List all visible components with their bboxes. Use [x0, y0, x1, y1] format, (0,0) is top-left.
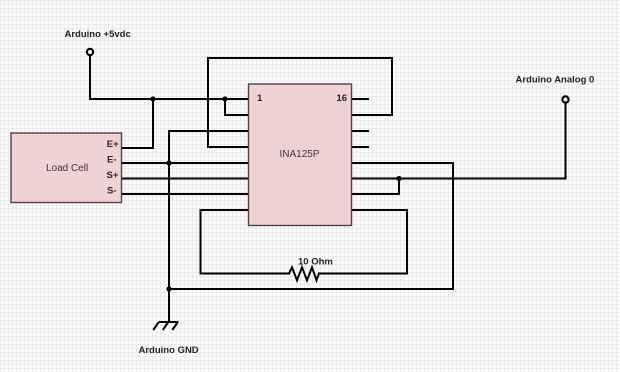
svg-text:10 Ohm: 10 Ohm [298, 257, 333, 268]
wire gain loop left: U1 pin 8 around to resistor [201, 210, 290, 274]
load cell block [11, 133, 122, 203]
wire gain loop right: resistor up to U1 pin 9 [319, 210, 407, 274]
wire load cell S+ to U1 pin 6 [122, 178, 249, 180]
wire U1 pin 12 to ground rail [169, 163, 453, 289]
wire top loop: pin 4 riser, top run, down to pin 15 [208, 58, 392, 147]
wire from +5v rail down to U1 pin 2 [225, 99, 249, 115]
svg-text:1: 1 [257, 93, 263, 104]
wire U1 pin 3 to ground vertical [169, 130, 249, 132]
ground symbol [153, 322, 178, 330]
junction dot pin 10 tap on analog wire [396, 176, 401, 181]
svg-text:INA125P: INA125P [280, 149, 320, 160]
wire load cell S- to U1 pin 7 [122, 193, 249, 195]
wire U1 pin 11 to Arduino Analog 0 [352, 104, 566, 179]
svg-text:Arduino +5vdc: Arduino +5vdc [65, 29, 131, 40]
wire load cell E- to U1 pin 5 [122, 162, 249, 164]
wire U1 pin 13 stub [352, 146, 369, 148]
node Arduino Analog 0 terminal circle [562, 96, 568, 102]
wire +5v rail to U1 pin 1 [90, 98, 249, 100]
wire U1 pin 14 stub [352, 130, 369, 132]
junction dot ground rail tap [166, 286, 171, 291]
wire E+ riser from load cell to +5v rail [122, 99, 154, 148]
op-amp U1 INA125P block [249, 84, 352, 226]
junction dot on +5v rail at pin 2 drop [222, 96, 227, 101]
svg-text:Load Cell: Load Cell [46, 163, 88, 174]
svg-text:Arduino Analog 0: Arduino Analog 0 [516, 74, 595, 85]
svg-text:Arduino GND: Arduino GND [139, 345, 199, 356]
svg-text:E-: E- [107, 155, 117, 166]
svg-text:S-: S- [107, 186, 117, 197]
wire +5v vertical drop [89, 56, 91, 100]
junction dot E- tap on ground vertical [166, 160, 171, 165]
wire ground vertical from pin3 level down to ground symbol [168, 131, 170, 321]
resistor R1 10 Ohm zigzag [289, 267, 319, 280]
svg-text:16: 16 [337, 93, 348, 104]
wire U1 pin 10 jog up to analog wire [352, 179, 400, 195]
svg-text:S+: S+ [107, 170, 119, 181]
node Arduino +5vdc terminal circle [87, 49, 93, 55]
junction dot on +5v rail at E+ riser [150, 96, 155, 101]
wire U1 pin 16 stub [352, 98, 369, 100]
svg-text:E+: E+ [107, 139, 119, 150]
